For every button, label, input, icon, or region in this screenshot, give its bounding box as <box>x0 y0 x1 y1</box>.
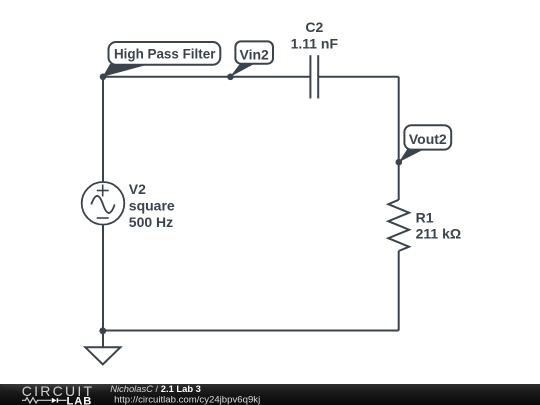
callout tail Vout2 <box>399 149 425 162</box>
logo glow <box>2 375 118 394</box>
svg-text:R1: R1 <box>416 209 434 225</box>
svg-text:square: square <box>129 198 175 214</box>
wire bottom <box>103 330 399 332</box>
ground symbol <box>85 347 120 364</box>
capacitor C2 plates <box>309 55 311 98</box>
svg-text:C2: C2 <box>305 19 323 35</box>
wire top-left to capacitor <box>103 76 310 78</box>
V2 sine wave <box>91 196 114 213</box>
callout box High Pass Filter <box>109 42 221 65</box>
node dot top-left <box>100 74 107 81</box>
svg-text:NicholasC / 2.1 Lab 3: NicholasC / 2.1 Lab 3 <box>110 384 201 394</box>
svg-text:211 kΩ: 211 kΩ <box>416 226 462 242</box>
callout tail High Pass Filter <box>103 64 150 77</box>
V2 plus sign <box>97 185 109 197</box>
svg-text:500 Hz: 500 Hz <box>129 214 173 230</box>
node Vout2 <box>396 159 403 166</box>
wire right vertical upper <box>398 77 400 200</box>
svg-text:V2: V2 <box>129 181 146 197</box>
svg-text:1.11 nF: 1.11 nF <box>291 36 339 52</box>
logo resistor zigzag <box>22 398 52 403</box>
wire left vertical lower <box>102 225 104 348</box>
CircuitLab logo and credits <box>0 384 540 405</box>
svg-text:Vin2: Vin2 <box>240 46 270 62</box>
callout box Vin2 <box>235 41 273 63</box>
V2 minus sign <box>97 217 109 219</box>
callout tail Vin2 <box>230 64 255 77</box>
node Vin2 <box>227 74 234 81</box>
svg-text:High Pass Filter: High Pass Filter <box>114 46 216 62</box>
logo diode <box>52 398 57 403</box>
voltage source V2 circle <box>82 182 125 225</box>
wire left vertical upper <box>102 77 104 182</box>
svg-text:http://circuitlab.com/cy24jbpv: http://circuitlab.com/cy24jbpv6q9kj <box>114 394 260 405</box>
node ground junction <box>99 327 106 334</box>
wire capacitor to top-right corner <box>318 76 399 78</box>
callout box Vout2 <box>404 125 451 149</box>
wire right vertical lower <box>398 251 400 331</box>
svg-text:Vout2: Vout2 <box>409 131 447 147</box>
resistor R1 zigzag <box>388 200 409 251</box>
footer bar <box>0 384 540 405</box>
svg-text:LAB: LAB <box>67 395 93 405</box>
